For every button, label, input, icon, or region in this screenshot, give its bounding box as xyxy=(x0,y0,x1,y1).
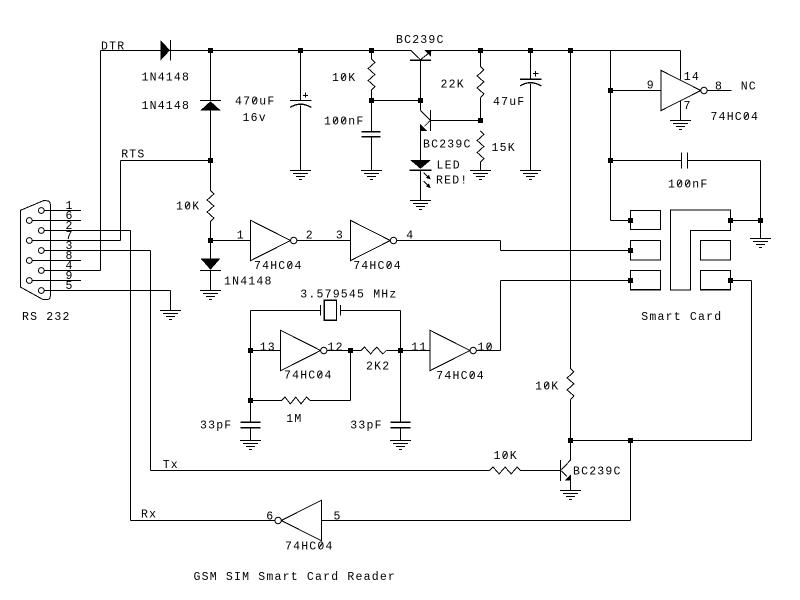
svg-text:6: 6 xyxy=(266,510,274,523)
wire pin4 to smart card pad2 xyxy=(397,241,631,251)
op-amp U1e 74HC04 xyxy=(281,330,327,370)
junction pin13 node xyxy=(248,348,253,353)
svg-text:74HC04: 74HC04 xyxy=(254,260,303,273)
wire node to Q1 base node xyxy=(372,100,421,102)
connector pin 3 xyxy=(38,240,150,254)
svg-text:1N4148: 1N4148 xyxy=(224,276,273,289)
resistor R2 10K xyxy=(368,51,375,101)
svg-text:74HC04: 74HC04 xyxy=(285,541,334,554)
junction R2/C3 node xyxy=(369,98,374,103)
junction 1M node xyxy=(248,398,253,403)
ground pin5 xyxy=(160,311,181,320)
junction rail/R7 vertical xyxy=(568,48,573,53)
svg-text:9: 9 xyxy=(647,80,655,93)
op-amp U1a 74HC04 xyxy=(251,220,297,260)
wire pin5 input xyxy=(321,520,630,522)
svg-text:RTS: RTS xyxy=(121,149,145,162)
svg-text:Smart Card: Smart Card xyxy=(641,311,722,324)
wire rail right segment xyxy=(431,51,680,80)
wire rail to R7 xyxy=(570,51,572,369)
svg-text:10K: 10K xyxy=(494,450,518,463)
wire Rx horizontal xyxy=(131,520,275,522)
ground smart card xyxy=(750,239,771,248)
junction pad1 xyxy=(628,218,633,223)
wire D2 to RTS node xyxy=(210,111,212,161)
svg-text:10K: 10K xyxy=(535,380,559,393)
capacitor C6 33pF xyxy=(391,422,411,440)
junction R7/Q3 collector xyxy=(568,438,573,443)
svg-text:14: 14 xyxy=(684,71,700,84)
resistor R7 10K xyxy=(567,368,574,440)
smart card pad 5 xyxy=(701,241,731,261)
capacitor C1 470uF 16v xyxy=(290,51,311,171)
wire pin11 input xyxy=(401,350,431,352)
resistor R4 15K xyxy=(477,131,484,171)
svg-text:33pF: 33pF xyxy=(350,420,382,433)
svg-text:1M: 1M xyxy=(286,413,302,426)
svg-text:16v: 16v xyxy=(243,112,267,125)
svg-text:10: 10 xyxy=(478,341,494,354)
wire pin3 vertical Tx xyxy=(150,251,152,471)
svg-text:5: 5 xyxy=(66,280,74,293)
connector pin 1 xyxy=(38,200,81,214)
junction pad2 xyxy=(628,248,633,253)
svg-text:13: 13 xyxy=(260,342,276,355)
junction card ground tap xyxy=(758,218,763,223)
resistor R3 22K xyxy=(477,51,484,121)
wire U1a out to U1b in xyxy=(297,240,350,242)
svg-text:470uF: 470uF xyxy=(235,96,276,109)
ground C3 xyxy=(361,171,382,180)
ground C5 xyxy=(240,441,261,450)
crystal X1 xyxy=(321,300,341,320)
connector pin 6 xyxy=(26,210,81,224)
wire R8 to Q3 base xyxy=(521,470,561,472)
wire RTS horizontal xyxy=(121,160,211,162)
wire crystal loop xyxy=(251,311,401,423)
junction pad3 xyxy=(628,278,633,283)
junction R3/R4/Q2 base xyxy=(478,118,483,123)
svg-text:Rx: Rx xyxy=(141,508,157,521)
svg-text:100nF: 100nF xyxy=(324,116,365,129)
op-amp U1f 74HC04 xyxy=(430,330,476,370)
svg-text:47uF: 47uF xyxy=(493,96,525,109)
junction rail/R3 xyxy=(478,48,483,53)
connector J1 DB9 RS232 shell xyxy=(20,201,50,300)
resistor R6 1M feedback xyxy=(251,351,351,404)
wire pin10 out to pad3 xyxy=(476,281,630,351)
svg-text:10K: 10K xyxy=(176,201,200,214)
junction rail/D2 xyxy=(208,48,213,53)
diode D3 1N4148 xyxy=(200,241,221,291)
transistor Q1 BC239C xyxy=(410,50,432,101)
junction Q1 base node xyxy=(418,98,423,103)
wire Vcc to pad1 xyxy=(611,51,631,221)
wire DTR vertical to pin 4 xyxy=(100,51,102,271)
svg-text:11: 11 xyxy=(411,342,427,355)
wire pin1 input xyxy=(211,240,251,242)
capacitor C4 100nF xyxy=(611,152,761,238)
op-amp U1b 74HC04 xyxy=(350,220,396,260)
op-amp U1c 74HC04 xyxy=(661,70,707,110)
svg-text:33pF: 33pF xyxy=(200,420,232,433)
svg-text:5: 5 xyxy=(334,510,342,523)
svg-text:3.579545 MHz: 3.579545 MHz xyxy=(300,288,397,301)
capacitor C3 100nF xyxy=(362,101,381,171)
diode D1 1N4148 series xyxy=(161,40,171,61)
junction R1/D3/U1a xyxy=(208,238,213,243)
wire node to diode D2 xyxy=(210,51,212,101)
svg-text:1: 1 xyxy=(237,230,245,243)
svg-text:12: 12 xyxy=(328,342,344,355)
svg-text:1N4148: 1N4148 xyxy=(142,71,191,84)
wire pin2 vertical Rx xyxy=(130,231,132,521)
capacitor C5 33pF xyxy=(241,422,261,440)
junction centre pad xyxy=(728,218,733,223)
connector pin 4 xyxy=(38,260,100,274)
svg-text:100nF: 100nF xyxy=(668,178,709,191)
svg-text:22K: 22K xyxy=(441,79,465,92)
smart card centre pad xyxy=(671,210,731,290)
junction rail/C2 xyxy=(528,48,533,53)
wire pin8 out NC xyxy=(707,90,731,92)
connector pin 8 xyxy=(26,250,81,264)
smart card pad 3 xyxy=(631,271,661,290)
junction Rx riser xyxy=(628,438,633,443)
capacitor C2 47uF xyxy=(520,51,541,171)
wire pin12 out xyxy=(327,350,351,352)
wire pin7 to ground xyxy=(680,101,682,120)
smart card pad 1 xyxy=(631,211,661,230)
wire collector bus xyxy=(571,440,752,442)
resistor R5 2K2 xyxy=(351,347,401,354)
resistor R1 10K xyxy=(207,161,214,241)
junction rail/R2 xyxy=(369,48,374,53)
svg-text:15K: 15K xyxy=(492,142,516,155)
smart card pad 6 xyxy=(701,271,731,290)
svg-text:RS 232: RS 232 xyxy=(22,311,71,324)
svg-text:NC: NC xyxy=(741,81,757,94)
junction pad6 xyxy=(728,278,733,283)
transistor Q3 BC239C xyxy=(561,441,571,491)
op-amp U1g 74HC04 xyxy=(275,500,321,540)
svg-text:7: 7 xyxy=(684,100,692,113)
ground C2 xyxy=(520,171,541,180)
junction RTS/R1 xyxy=(208,158,213,163)
svg-text:BC239C: BC239C xyxy=(573,465,622,478)
connector pin 9 xyxy=(26,270,81,284)
resistor R8 10K Tx xyxy=(490,467,521,474)
ground U1c pin7 xyxy=(670,121,691,130)
smart card pad 2 xyxy=(631,241,661,261)
svg-text:74HC04: 74HC04 xyxy=(353,260,402,273)
svg-text:2K2: 2K2 xyxy=(366,360,390,373)
svg-text:1N4148: 1N4148 xyxy=(142,100,191,113)
junction pin9 tap xyxy=(608,88,613,93)
svg-text:BC239C: BC239C xyxy=(423,138,472,151)
svg-text:10K: 10K xyxy=(332,72,356,85)
ground D3 xyxy=(200,291,221,300)
ground C6 xyxy=(390,441,411,450)
junction pin12 node xyxy=(348,348,353,353)
junction rail/C1 xyxy=(298,48,303,53)
junction C4 tap xyxy=(608,158,613,163)
svg-text:74HC04: 74HC04 xyxy=(436,370,485,383)
wire pin13 input xyxy=(251,350,281,352)
svg-text:RED!: RED! xyxy=(436,174,468,187)
diode D2 1N4148 shunt xyxy=(200,101,221,111)
wire Q2 base to divider xyxy=(431,120,481,122)
connector pin 5 xyxy=(38,280,170,294)
svg-text:GSM SIM Smart Card Reader: GSM SIM Smart Card Reader xyxy=(194,571,397,584)
wire pin9 input xyxy=(611,90,661,92)
ground LED xyxy=(410,201,431,210)
svg-text:74HC04: 74HC04 xyxy=(284,370,333,383)
svg-text:8: 8 xyxy=(715,80,723,93)
ground R4 xyxy=(470,171,491,180)
wire pad6 to Q3 bus xyxy=(731,281,752,441)
svg-text:BC239C: BC239C xyxy=(396,34,445,47)
svg-text:LED: LED xyxy=(437,159,461,172)
wire centre pad to ground xyxy=(731,220,761,222)
ground C1 xyxy=(290,171,311,180)
junction pin11 node xyxy=(398,348,403,353)
ground Q3 emitter xyxy=(560,491,581,500)
wire Rx riser xyxy=(630,441,632,521)
transistor Q2 BC239C xyxy=(420,101,430,160)
wire pin5 to ground xyxy=(170,291,172,311)
wire RTS vertical pin7 xyxy=(120,161,122,241)
connector pin 7 xyxy=(26,230,120,244)
svg-text:3: 3 xyxy=(336,230,344,243)
wire DTR rail left segment xyxy=(101,50,411,52)
wire Tx horizontal xyxy=(151,470,490,472)
connector pin 2 xyxy=(38,220,130,234)
svg-text:DTR: DTR xyxy=(101,41,125,54)
LED D4 xyxy=(409,160,431,201)
svg-text:74HC04: 74HC04 xyxy=(711,111,760,124)
